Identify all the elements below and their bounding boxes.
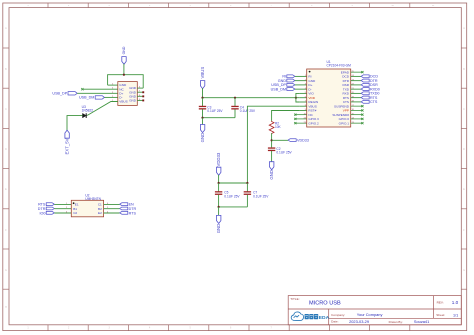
- svg-text:3: 3: [108, 5, 110, 7]
- svg-text:5: 5: [189, 328, 191, 330]
- capacitor C3: [199, 98, 224, 118]
- svg-text:F: F: [5, 230, 7, 232]
- svg-text:USB_DP: USB_DP: [52, 92, 67, 96]
- pin stubs VIO VDD REGIN VBUS RST#: [300, 93, 307, 110]
- USB connector right pin names (shield GND): [129, 86, 137, 102]
- NC pin stubs right with no-connect X: [351, 105, 364, 124]
- svg-text:Date:: Date:: [331, 320, 339, 324]
- wire GND flag to shield loop: [123, 64, 125, 75]
- svg-text:D: D: [463, 149, 465, 151]
- title block texts: [290, 297, 445, 324]
- diode U3 1N5822: [82, 105, 94, 118]
- svg-text:10: 10: [391, 5, 394, 7]
- U1 pin-1 dot: [309, 71, 311, 73]
- svg-text:A: A: [463, 27, 465, 30]
- svg-text:GND: GND: [216, 224, 221, 234]
- wire shield loop top: [108, 75, 144, 88]
- net label VDD33 (at R2/C2): [272, 139, 309, 143]
- U1 left pin numbers: [304, 75, 307, 124]
- svg-text:Sheet:: Sheet:: [436, 313, 445, 317]
- svg-text:2: 2: [68, 328, 70, 330]
- junction C5 bottom: [218, 206, 220, 208]
- U1 right pin numbers: [352, 71, 355, 124]
- svg-text:8: 8: [311, 5, 313, 7]
- svg-text:G: G: [5, 270, 7, 272]
- svg-text:EXT_5V: EXT_5V: [65, 138, 70, 154]
- net label USB_DP: [271, 83, 306, 87]
- U2 pin names: [73, 203, 79, 216]
- ground flag (below C3): [200, 125, 205, 143]
- wire VBUS pin rail: [247, 106, 299, 183]
- U2 pin numbers: [66, 203, 109, 214]
- svg-text:GND: GND: [122, 46, 126, 54]
- junction C3 bottom: [201, 117, 203, 119]
- USB connector J1 body: [118, 82, 138, 106]
- unconnected shield pin dots: [142, 91, 144, 101]
- net label RTS: [351, 96, 378, 100]
- svg-text:B: B: [5, 69, 7, 71]
- svg-text:4: 4: [149, 5, 151, 7]
- svg-text:1: 1: [27, 328, 29, 330]
- net port EXT_5V: [65, 130, 70, 154]
- wire R2 bottom to junction: [271, 133, 273, 147]
- svg-text:6: 6: [230, 5, 232, 7]
- ground flag (below C2): [269, 162, 274, 180]
- svg-text:VDD33: VDD33: [297, 139, 309, 143]
- capacitor C4: [231, 98, 256, 118]
- junction VBUS-wire/C7: [246, 182, 248, 184]
- wire RST# to R2: [272, 111, 300, 121]
- wire VBUS pin diagonal to diode: [86, 102, 118, 116]
- svg-text:2: 2: [68, 5, 70, 7]
- svg-text:H: H: [5, 307, 7, 309]
- net label CTS: [351, 100, 378, 104]
- wire diode anode to EXT_5V: [67, 116, 83, 131]
- wire GND pin stub: [108, 84, 118, 86]
- wire VDD33 port down: [218, 175, 220, 183]
- svg-text:4: 4: [149, 328, 151, 330]
- svg-text:VDD33: VDD33: [216, 152, 221, 166]
- svg-text:VBUS: VBUS: [200, 67, 205, 79]
- svg-text:10K: 10K: [275, 125, 282, 129]
- net label TXD0: [351, 92, 380, 96]
- ground flag (top, above USB connector): [122, 46, 126, 64]
- junction VBUS/C3: [201, 97, 203, 99]
- net label DTR (left of U2): [38, 207, 71, 211]
- svg-text:TITLE:: TITLE:: [290, 297, 299, 301]
- net label GND: [278, 79, 307, 83]
- net label RTS (left of U2): [38, 203, 71, 207]
- svg-text:0.1UF 25V: 0.1UF 25V: [253, 194, 269, 198]
- svg-text:Your Company: Your Company: [357, 312, 383, 317]
- net label IO0 (left of U2): [39, 211, 71, 215]
- svg-text:Drawn By:: Drawn By:: [389, 320, 403, 324]
- svg-text:D: D: [5, 149, 7, 151]
- svg-text:1N5822: 1N5822: [82, 109, 94, 113]
- svg-text:C: C: [463, 109, 465, 111]
- net label USB_DP (USB connector side): [52, 92, 117, 96]
- svg-text:GND: GND: [129, 99, 137, 103]
- svg-text:0.1UF 25V: 0.1UF 25V: [207, 109, 223, 113]
- junction R2/C2/VDD33: [271, 139, 273, 141]
- net label RXD0: [351, 87, 380, 91]
- capacitor C7: [244, 183, 270, 207]
- junction C4/rail: [234, 97, 236, 99]
- no-connect X on NC wire: [81, 88, 83, 90]
- net label EN (right of U2): [104, 203, 134, 207]
- transistor array U2 UMH3N body: [71, 193, 103, 216]
- U1 left pin names: [308, 75, 319, 126]
- svg-text:F: F: [463, 230, 465, 232]
- junction loop/GND: [123, 74, 125, 76]
- U1 body: [307, 69, 351, 127]
- wire VDD rail: [203, 97, 300, 99]
- resistor R2 10K: [269, 121, 281, 134]
- EPAD stub with no-connect X: [351, 71, 364, 73]
- USB connector left pin names: [119, 83, 127, 103]
- svg-text:GND: GND: [269, 170, 274, 180]
- wire to ground flag: [218, 207, 220, 216]
- ground flag (below C5): [216, 215, 221, 233]
- wire VBUS port down: [202, 88, 204, 98]
- svg-text:EDA: EDA: [319, 315, 330, 321]
- svg-text:MICRO USB: MICRO USB: [309, 301, 341, 307]
- svg-text:2023-03-29: 2023-03-29: [349, 319, 369, 324]
- svg-text:1.0: 1.0: [452, 300, 459, 305]
- wire VIO hook: [296, 93, 300, 97]
- svg-text:USB_DM: USB_DM: [79, 96, 94, 100]
- svg-text:9: 9: [351, 5, 353, 7]
- svg-text:Company:: Company:: [331, 313, 345, 317]
- svg-text:CP2104-F03-GM: CP2104-F03-GM: [327, 64, 352, 68]
- USB connector pin numbers: [112, 84, 141, 102]
- net label DSR: [351, 83, 378, 87]
- svg-text:GPIO.1: GPIO.1: [339, 121, 350, 125]
- svg-text:1/1: 1/1: [453, 313, 458, 317]
- net label DTR: [351, 79, 378, 83]
- svg-text:IO0: IO0: [39, 211, 45, 215]
- U1 right pin names: [332, 70, 349, 125]
- net port VBUS (top): [200, 67, 205, 89]
- wire NC pin with no-connect: [82, 88, 118, 90]
- svg-text:Souza41: Souza41: [414, 319, 429, 324]
- svg-text:C: C: [5, 109, 7, 111]
- svg-text:RTS: RTS: [129, 211, 137, 215]
- svg-text:0.1UF 25V: 0.1UF 25V: [276, 151, 292, 155]
- junction VDD33/C5: [218, 182, 220, 184]
- junction VIO-REGIN/rail: [295, 97, 297, 99]
- svg-text:E: E: [463, 189, 465, 191]
- svg-text:REV:: REV:: [437, 301, 444, 305]
- title block box: [288, 296, 461, 325]
- wire REGIN hook: [296, 98, 300, 102]
- svg-text:CTS: CTS: [370, 100, 378, 104]
- net label USB_DM: [271, 87, 307, 91]
- svg-text:GND: GND: [200, 133, 205, 143]
- wire to ground flag: [202, 118, 204, 125]
- svg-text:11: 11: [432, 5, 435, 7]
- capacitor C5: [215, 183, 241, 207]
- net label RI: [282, 75, 306, 79]
- wire VDD33 node row: [219, 182, 248, 184]
- svg-text:USB_DM: USB_DM: [271, 87, 286, 91]
- svg-text:3: 3: [108, 328, 110, 330]
- svg-text:E: E: [5, 189, 7, 191]
- capacitor C2: [268, 147, 293, 162]
- net label DCD: [351, 75, 379, 79]
- svg-text:G: G: [463, 270, 465, 272]
- wire C3/C4 bottoms: [203, 117, 236, 119]
- net label USB_DM (USB connector side): [79, 96, 118, 100]
- svg-text:7: 7: [270, 328, 272, 330]
- net port VDD33 (mid): [216, 152, 221, 175]
- svg-text:GPIO.2: GPIO.2: [308, 121, 319, 125]
- svg-text:1: 1: [27, 5, 29, 7]
- NC pin stubs left with no-connect X: [294, 114, 307, 125]
- net label RTS (right of U2): [104, 211, 137, 215]
- svg-text:7: 7: [270, 5, 272, 7]
- svg-text:0.1UF 25V: 0.1UF 25V: [240, 109, 256, 113]
- net label DTR (right of U2): [104, 207, 137, 211]
- svg-text:VBUS: VBUS: [119, 100, 127, 104]
- svg-text:B: B: [463, 69, 465, 71]
- JLC EDA logo: [291, 312, 329, 321]
- svg-text:0.1UF 25V: 0.1UF 25V: [224, 194, 240, 198]
- svg-text:C2: C2: [73, 211, 77, 215]
- svg-text:A: A: [5, 27, 7, 30]
- wire C5/C7 bottoms: [219, 206, 248, 208]
- svg-text:6: 6: [230, 328, 232, 330]
- USB shield pin stubs right: [137, 88, 143, 100]
- svg-text:E2: E2: [98, 211, 102, 215]
- svg-text:5: 5: [189, 5, 191, 7]
